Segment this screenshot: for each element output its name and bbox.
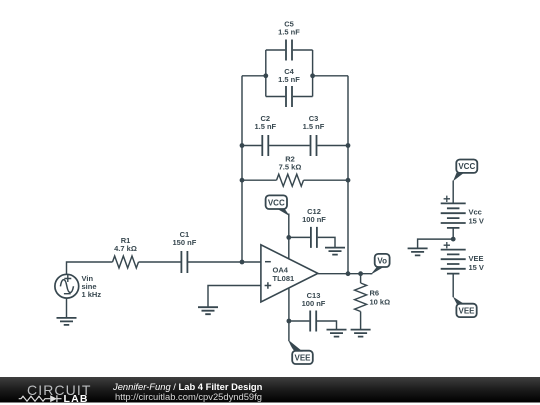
battery Vcc bbox=[441, 196, 484, 228]
svg-text:1.5 nF: 1.5 nF bbox=[278, 28, 300, 37]
wire bbox=[66, 298, 68, 318]
wire bbox=[360, 312, 362, 330]
svg-text:VEE: VEE bbox=[458, 306, 475, 315]
wire bbox=[266, 50, 313, 97]
wire bbox=[347, 76, 349, 274]
svg-text:TL081: TL081 bbox=[273, 274, 295, 283]
capacitor C5 bbox=[278, 20, 300, 61]
svg-text:1.5 nF: 1.5 nF bbox=[254, 122, 276, 131]
ground bbox=[351, 330, 371, 337]
svg-text:10 kΩ: 10 kΩ bbox=[370, 298, 391, 307]
node bbox=[346, 271, 351, 276]
wire bbox=[139, 261, 182, 263]
svg-text:VCC: VCC bbox=[268, 198, 285, 207]
ground bbox=[408, 248, 428, 255]
wire bbox=[266, 49, 313, 51]
wire bbox=[452, 228, 454, 239]
svg-text:15 V: 15 V bbox=[469, 263, 484, 272]
svg-text:VEE: VEE bbox=[294, 353, 311, 362]
wire bbox=[288, 214, 290, 260]
node bbox=[287, 319, 292, 324]
resistor R1 bbox=[113, 236, 139, 268]
capacitor C3 bbox=[303, 114, 325, 156]
wire bbox=[318, 273, 372, 275]
capacitor C13 bbox=[302, 291, 326, 332]
wire bbox=[313, 75, 348, 77]
net label VCC bbox=[266, 195, 290, 216]
svg-text:Vcc: Vcc bbox=[469, 208, 482, 217]
wire bbox=[208, 286, 261, 308]
svg-text:LAB: LAB bbox=[64, 393, 89, 405]
svg-text:VCC: VCC bbox=[458, 162, 475, 171]
svg-text:R6: R6 bbox=[370, 288, 380, 297]
wire bbox=[418, 239, 454, 248]
capacitor C2 bbox=[254, 114, 276, 156]
capacitor C1 bbox=[173, 230, 197, 273]
wire bbox=[289, 321, 337, 329]
wire bbox=[289, 237, 335, 247]
node B bbox=[310, 73, 315, 78]
svg-text:1 kHz: 1 kHz bbox=[82, 290, 102, 299]
node bbox=[240, 143, 245, 148]
node bbox=[346, 178, 351, 183]
ground bbox=[327, 330, 347, 337]
svg-text:Vo: Vo bbox=[377, 257, 387, 266]
svg-text:http://circuitlab.com/cpv25dyn: http://circuitlab.com/cpv25dynd59fg bbox=[115, 391, 262, 402]
battery VEE bbox=[441, 242, 484, 274]
node bbox=[240, 178, 245, 183]
wire bbox=[242, 179, 348, 181]
wire bbox=[452, 274, 454, 298]
wire bbox=[67, 262, 113, 275]
op-amp OA4 bbox=[261, 245, 318, 302]
wire bbox=[188, 261, 261, 263]
svg-text:VEE: VEE bbox=[469, 254, 484, 263]
svg-text:100 nF: 100 nF bbox=[302, 299, 326, 308]
svg-text:4.7 kΩ: 4.7 kΩ bbox=[114, 244, 137, 253]
ground bbox=[198, 307, 218, 314]
wire bbox=[241, 76, 243, 262]
voltage source Vin bbox=[55, 274, 101, 299]
capacitor C4 bbox=[278, 67, 300, 107]
resistor R2 bbox=[277, 154, 304, 186]
ground bbox=[57, 318, 77, 325]
node bbox=[286, 235, 291, 240]
node bbox=[451, 237, 456, 242]
node A bbox=[263, 73, 268, 78]
node bbox=[346, 143, 351, 148]
resistor R6 bbox=[355, 283, 391, 312]
wire bbox=[360, 274, 362, 283]
net label VEE bbox=[289, 341, 313, 364]
svg-text:1.5 nF: 1.5 nF bbox=[303, 122, 325, 131]
net label VEE bbox=[453, 297, 477, 318]
net label Vo bbox=[370, 254, 389, 275]
node: inverting input junction bbox=[240, 260, 245, 265]
svg-text:150 nF: 150 nF bbox=[173, 238, 197, 247]
capacitor C12 bbox=[302, 207, 326, 248]
CircuitLab logo bbox=[19, 382, 92, 405]
wire bbox=[266, 96, 313, 98]
svg-text:100 nF: 100 nF bbox=[302, 215, 326, 224]
wire bbox=[288, 288, 290, 341]
svg-text:7.5 kΩ: 7.5 kΩ bbox=[279, 163, 302, 172]
wire bbox=[452, 181, 454, 204]
svg-text:1.5 nF: 1.5 nF bbox=[278, 75, 300, 84]
ground bbox=[325, 248, 345, 255]
net label VCC bbox=[453, 160, 477, 182]
svg-text:15 V: 15 V bbox=[469, 217, 484, 226]
wire bbox=[242, 145, 348, 147]
wire bbox=[242, 75, 266, 77]
node bbox=[358, 271, 363, 276]
